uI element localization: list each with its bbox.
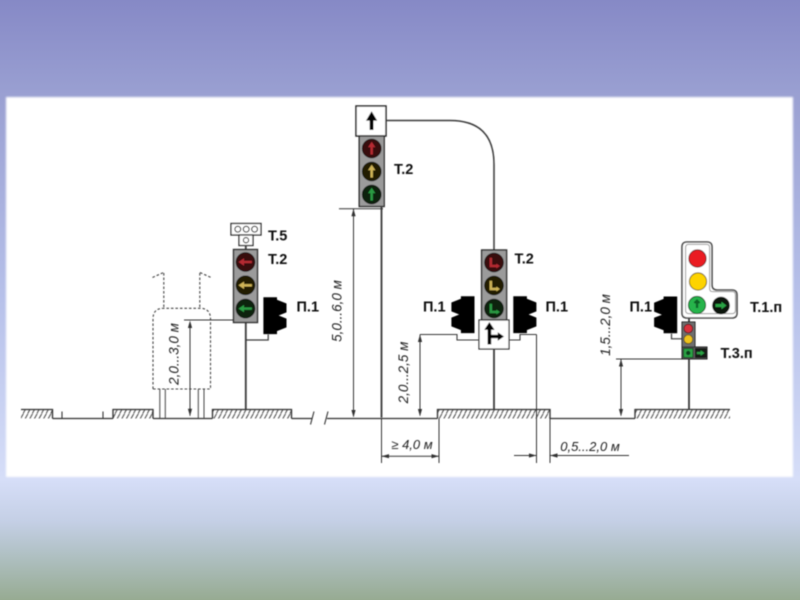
traffic light T.1.p (L-shaped panel) xyxy=(682,242,737,318)
hanging traffic light T.2 (centre, combined arrows) xyxy=(482,250,507,320)
ground: road segment A-B xyxy=(53,412,114,419)
bracket P.1 to pole (left assembly) xyxy=(246,334,268,340)
svg-text:Т.1.п: Т.1.п xyxy=(750,300,782,316)
pole below hanging light xyxy=(493,349,495,410)
traffic light T.3.p (small doubler) xyxy=(682,322,707,359)
pole of left assembly xyxy=(245,246,247,410)
svg-text:2,0...3,0 м: 2,0...3,0 м xyxy=(167,323,182,386)
mast arm sign with up arrow (top light) xyxy=(356,106,386,136)
svg-text:Т.2: Т.2 xyxy=(394,162,413,178)
svg-text:Т.3.п: Т.3.п xyxy=(721,346,753,362)
dimension 2,0...2,5 м xyxy=(396,335,422,417)
svg-text:1,5...2,0 м: 1,5...2,0 м xyxy=(598,294,613,356)
dimension 0,5...2,0 м xyxy=(514,335,629,464)
pedestrian signal P.1 (right assembly, visors left) xyxy=(654,297,677,334)
pedestrian signal P.1 (centre right, visors right) xyxy=(513,296,536,333)
svg-text:П.1: П.1 xyxy=(423,300,446,316)
ground break marks xyxy=(311,412,329,425)
wire from mast sign to hanging light xyxy=(386,121,494,251)
svg-text:≥ 4,0 м: ≥ 4,0 м xyxy=(391,437,432,452)
svg-text:Т.5: Т.5 xyxy=(268,229,287,245)
pole of right assembly xyxy=(688,318,690,410)
bracket P.1 to T.3 (right assembly) xyxy=(672,334,683,339)
pedestrian signal P.1 (left assembly, visors right) xyxy=(263,297,286,334)
ground: platform E hatched curb xyxy=(635,410,730,419)
ground: platform A hatched curb xyxy=(21,410,53,419)
traffic light T.2 (left assembly, left arrows) xyxy=(234,250,258,323)
traffic light T.2 on mast (up arrows) xyxy=(359,136,384,207)
vehicle wheels xyxy=(160,389,204,418)
lane sign with up/right arrows under hanging light xyxy=(479,320,509,349)
ground: road segment C to break xyxy=(292,418,313,420)
dimension >= 4,0 м xyxy=(382,419,440,464)
ground: platform B hatched curb xyxy=(113,410,153,419)
svg-text:П.1: П.1 xyxy=(546,300,569,316)
ground: platform C hatched curb xyxy=(213,410,292,419)
svg-text:Т.2: Т.2 xyxy=(515,252,534,268)
pedestrian signal P.1 (centre left, visors left) xyxy=(451,296,474,333)
traffic light T.5 sign (left assembly) xyxy=(231,224,261,246)
vehicle clearance dashed outline (trolleybus) xyxy=(153,273,212,390)
ground: road segment D-E xyxy=(550,418,635,420)
dimension 2,0...3,0 м xyxy=(167,320,234,416)
svg-text:П.1: П.1 xyxy=(630,300,653,316)
svg-text:Т.2: Т.2 xyxy=(268,252,287,268)
white slide content area xyxy=(6,97,793,477)
svg-text:5,0...6,0 м: 5,0...6,0 м xyxy=(330,280,345,342)
svg-text:0,5...2,0 м: 0,5...2,0 м xyxy=(560,439,620,454)
bracket under P.1 signals xyxy=(420,335,537,341)
mast pole xyxy=(381,207,383,418)
ground: platform D hatched curb xyxy=(438,410,551,419)
svg-text:2,0...2,5 м: 2,0...2,5 м xyxy=(396,342,411,405)
dimension 5,0...6,0 м xyxy=(330,209,384,418)
dimension 1,5...2,0 м xyxy=(598,294,682,416)
ground: road cut under vehicle xyxy=(153,418,213,420)
ground: road segment break to platform D xyxy=(327,418,438,420)
svg-text:П.1: П.1 xyxy=(297,300,320,316)
